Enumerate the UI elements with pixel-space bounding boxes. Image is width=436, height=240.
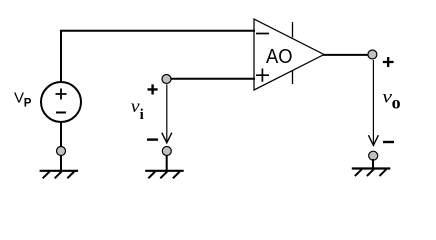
- arrow vi: [162, 85, 172, 143]
- wire from op-amp output to vo node: [323, 54, 368, 56]
- minus sign vo: [383, 141, 394, 143]
- op-amp power tick top: [292, 22, 294, 38]
- plus sign vo: [383, 57, 394, 67]
- wire from VP top to op-amp inverting input: [61, 31, 255, 81]
- svg-text:P: P: [24, 97, 32, 109]
- minus sign vi: [147, 138, 158, 140]
- svg-text:AO: AO: [266, 46, 293, 68]
- node vo bottom: [369, 151, 378, 160]
- label vi: [131, 96, 144, 123]
- op-amp inverting input minus symbol: [256, 33, 269, 35]
- node under VP: [57, 147, 66, 156]
- ground (left): [40, 171, 79, 179]
- node vi bottom: [162, 147, 171, 156]
- op-amp non-inverting input plus symbol: [256, 69, 269, 82]
- svg-text:i: i: [140, 107, 144, 123]
- voltage source VP: [41, 82, 81, 122]
- wire from vo bottom node to ground (right): [372, 159, 374, 169]
- label VP: [14, 89, 32, 109]
- ground (right): [352, 169, 391, 177]
- op-amp power tick bottom: [292, 71, 294, 85]
- ground (middle): [145, 171, 184, 179]
- svg-text:v: v: [382, 86, 392, 106]
- node vi top: [162, 75, 171, 84]
- svg-text:V: V: [14, 89, 24, 106]
- op-amp label AO: [266, 46, 293, 68]
- node vo top: [368, 50, 377, 59]
- wire from node to ground (left): [60, 155, 62, 171]
- plus sign vi: [148, 84, 158, 94]
- svg-text:v: v: [131, 96, 140, 116]
- svg-text:o: o: [392, 92, 401, 112]
- wire from vi node to op-amp non-inverting input: [171, 78, 255, 80]
- wire from VP bottom to node: [60, 122, 62, 147]
- op-amp AO triangle: [254, 19, 324, 90]
- label vo: [382, 86, 400, 112]
- wire from vi bottom node to ground (middle): [166, 155, 168, 171]
- arrow vo: [368, 60, 378, 145]
